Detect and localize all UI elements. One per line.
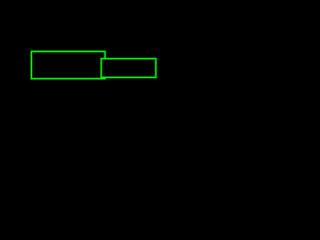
box 1 glow (large rear rectangle outline) (31, 51, 105, 78)
box 2 core (small front rectangle outline) (101, 59, 156, 78)
box 2 fill+glow (small front rectangle, black fill occludes box 1 right edge) (101, 59, 156, 78)
box 1 core (large rear rectangle outline) (31, 51, 105, 78)
